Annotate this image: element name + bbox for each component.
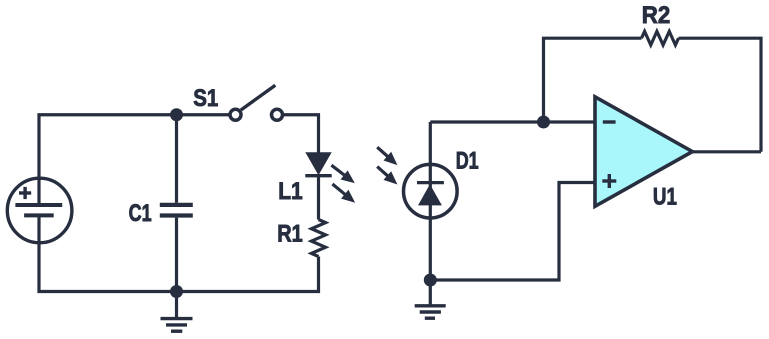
light arrow onto photodiode 2 <box>373 162 401 189</box>
switch S1 <box>230 85 283 120</box>
LED L1 <box>305 152 331 219</box>
ground (left) <box>161 292 193 332</box>
wire: D1 cathode to inverting input <box>430 120 595 123</box>
svg-text:C1: C1 <box>129 200 152 227</box>
node: inverting input junction <box>537 116 550 129</box>
light arrow onto photodiode 1 <box>373 143 401 170</box>
svg-text:S1: S1 <box>193 85 218 112</box>
photodiode D1 <box>404 122 458 280</box>
svg-text:D1: D1 <box>456 148 479 175</box>
wire: switch to LED anode <box>282 115 319 153</box>
svg-text:L1: L1 <box>278 178 303 205</box>
LED emitted light arrow 2 <box>329 180 359 208</box>
wire: battery negative, bottom rail, up to R1 bottom <box>39 215 319 291</box>
wire: battery positive to top rail to switch S1 <box>39 115 231 205</box>
capacitor C1 <box>160 115 193 292</box>
node: bottom junction (ground) <box>170 285 183 298</box>
op-amp U1 <box>595 97 692 207</box>
svg-text:U1: U1 <box>653 183 677 210</box>
svg-text:R2: R2 <box>642 2 671 29</box>
ground (below D1) <box>415 280 446 318</box>
resistor R2 <box>642 31 679 45</box>
node: top junction (battery/C1/S1) <box>170 108 183 121</box>
node: D1 anode junction <box>424 274 437 287</box>
wire: non-inverting input from ground node <box>430 183 595 281</box>
battery voltage source <box>7 178 72 243</box>
svg-text:R1: R1 <box>277 220 303 247</box>
wire: R2 to output node (right side of loop) <box>679 38 762 152</box>
wire: op-amp output <box>692 150 761 153</box>
resistor R1 <box>311 220 325 257</box>
LED emitted light arrow 1 <box>328 161 358 188</box>
wire: feedback loop (left vertical + top rail to R2) <box>544 38 642 122</box>
